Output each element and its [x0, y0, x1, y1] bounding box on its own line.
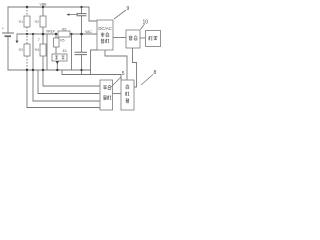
svg-text:43: 43 [63, 49, 67, 53]
svg-text:5: 5 [122, 71, 125, 77]
svg-text:VAC: VAC [85, 30, 92, 34]
wire mid rail left [17, 33, 59, 35]
wire ground jog [61, 70, 63, 75]
shunt reference inner marks [55, 56, 65, 60]
resistor chain x56 wires [56, 34, 57, 70]
block booster box [126, 30, 140, 48]
wire booster to lamp [140, 37, 146, 39]
wire x76 [71, 34, 73, 70]
sample tap 4 [43, 70, 100, 86]
resistor R1 [24, 16, 30, 27]
resistor R5 [54, 38, 60, 47]
svg-text:10: 10 [143, 20, 149, 26]
wire left rail upper [7, 7, 9, 33]
block lamp box [146, 31, 161, 47]
block controller box [121, 80, 134, 110]
sample tap 1 [27, 70, 100, 108]
wire lower bus [62, 75, 121, 81]
wire left rail lower [7, 37, 9, 70]
wire bottom rail [8, 69, 91, 71]
resistor R3 [24, 44, 30, 56]
resistor R6 horizontal [58, 31, 70, 37]
node divider tap wire x33 [32, 34, 34, 70]
capacitor chain wire x82 [81, 7, 83, 75]
svg-text:R3: R3 [19, 48, 23, 52]
capacitor C1 plates [77, 14, 87, 16]
svg-text:7: 7 [38, 38, 40, 42]
resistor R4 [40, 44, 46, 56]
svg-text:9: 9 [127, 6, 130, 12]
svg-text:R5: R5 [60, 39, 64, 43]
pointer line for 9 [114, 10, 126, 19]
resistor chain x43 wires [42, 7, 44, 70]
block DC/AC converter box [97, 20, 113, 50]
svg-text:R6: R6 [62, 27, 66, 31]
arrowhead battery minus [16, 41, 19, 44]
wire x47 [46, 34, 48, 70]
shunt reference cathode arrow [56, 61, 59, 65]
pointer line for 8 [141, 75, 153, 86]
wire converter bottom stub [91, 50, 98, 75]
wire sampler to controller [113, 93, 122, 95]
battery long plate [2, 32, 14, 34]
arrow to battery minus [16, 34, 18, 41]
battery short plate [5, 35, 12, 37]
resistor R2 [40, 16, 46, 27]
svg-text:VBB: VBB [40, 3, 48, 7]
wire booster bottom to controller right [133, 48, 137, 87]
wire top rail [8, 6, 89, 8]
wire converter to booster [113, 37, 126, 39]
svg-text:8: 8 [154, 70, 157, 76]
wire mid rail right [70, 33, 97, 35]
wire converter bottom to controller top [105, 50, 127, 80]
shunt reference box [52, 54, 67, 61]
resistor chain x27 dashed wires [26, 7, 28, 70]
junction dots [26, 6, 83, 71]
pointer line for 5 [111, 77, 122, 88]
svg-text:DC/AC: DC/AC [98, 26, 111, 31]
pointer line for 10 [141, 24, 145, 30]
sample tap 3 [38, 70, 100, 94]
wire top rail drop to converter [89, 7, 97, 21]
svg-text:R1: R1 [19, 20, 23, 24]
sample tap 2 [33, 70, 100, 101]
svg-text:VREF: VREF [46, 29, 55, 33]
svg-text:R4: R4 [35, 48, 39, 52]
capacitor C2 plates [75, 52, 88, 54]
svg-text:R2: R2 [35, 20, 39, 24]
block sampling circuit box [100, 80, 113, 110]
label arrow at C1 [69, 14, 78, 16]
